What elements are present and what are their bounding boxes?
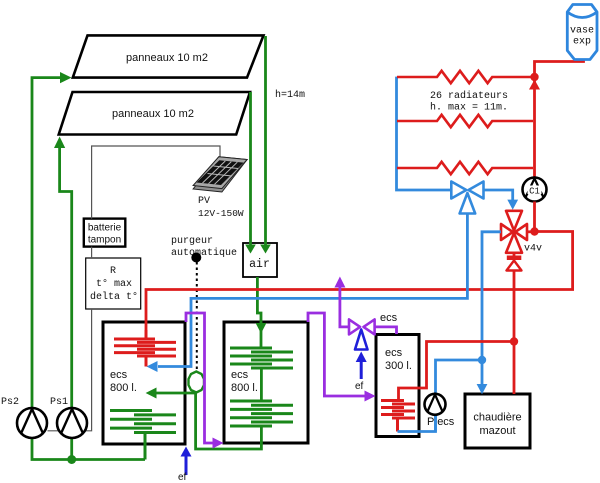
svg-text:h=14m: h=14m [275,89,305,101]
flow arrow up on radiator main [529,80,540,90]
flow meter oval [189,372,205,393]
4-way valve v4v [501,211,527,253]
sensor dotted line [196,262,198,371]
wire battery to controller R [91,247,93,258]
tank 1 green coil [110,411,176,460]
arrow into boiler blue [477,384,488,394]
svg-text:Ps1: Ps1 [50,397,68,408]
svg-text:ecs: ecs [110,369,128,381]
svg-text:ecs: ecs [231,369,249,381]
svg-text:panneaux 10 m2: panneaux 10 m2 [126,52,208,64]
svg-text:ecs: ecs [380,312,398,324]
PV panel icon [193,157,247,192]
svg-text:800 l.: 800 l. [231,382,258,394]
arrow into tank 1 green [146,388,196,399]
tank 1 red coil [114,330,176,367]
svg-text:chaudière: chaudière [473,412,521,424]
pipe v4v right port [527,230,532,233]
svg-text:Ps2: Ps2 [1,397,19,408]
svg-text:ef: ef [178,472,187,483]
tank 3 red coil [381,399,415,432]
svg-text:300 l.: 300 l. [385,360,412,372]
svg-text:12V-150W: 12V-150W [198,208,244,219]
tank 2 inlet from air separator [260,330,263,348]
pipe tank3 coil bottom to P ecs [398,415,436,432]
pipe transfer tank2 top to tank3 purple [308,313,376,402]
wire pump Ps1 riser to panel 2 [54,137,72,411]
pump Ps2 [1,397,47,438]
svg-text:ef: ef [355,381,364,392]
solar panel 1 [73,35,264,77]
node boiler return junction [478,356,486,364]
pipe junction to tank3 coil [399,342,515,401]
svg-text:h. max = 11m.: h. max = 11m. [430,102,508,114]
tank 2 green coil bottom [230,401,293,426]
wire panel 1 outlet down to air separator [264,36,267,246]
check valve under v4v [507,253,522,271]
svg-text:exp: exp [573,37,591,48]
tank 1 ecs 800 l [103,322,185,444]
tank 2 ecs 800 l [224,322,308,443]
node boiler supply junction [510,337,518,345]
svg-text:ecs: ecs [385,347,403,359]
pipe to expansion vessel [535,58,584,77]
radiator row 1 [397,71,531,83]
node v4v junction [530,227,538,235]
mixing valve ecs purple [349,319,375,334]
circulator pump C1 [523,178,547,202]
pipe junction to P ecs pump [436,360,483,394]
svg-text:800 l.: 800 l. [110,382,137,394]
svg-text:tampon: tampon [88,235,121,246]
svg-text:panneaux 10 m2: panneaux 10 m2 [112,108,194,120]
svg-text:26 radiateurs: 26 radiateurs [430,90,508,102]
wire pump Ps2 riser to panel 1 [32,72,72,410]
pipe tank2 coil return riser [196,393,262,450]
svg-text:t° max: t° max [96,278,132,290]
node radiator supply junction [530,73,538,81]
pipe hot supply main red horizontal [146,232,573,331]
cold water ef arrow into tank 1 [178,447,192,483]
battery box batterie tampon [84,219,126,247]
pipe v4v left port blue to boiler [482,232,501,385]
svg-text:R: R [110,266,116,277]
pipe ecs valve to tank3 top [375,327,397,334]
svg-text:PV: PV [198,196,210,207]
radiator row 2 [397,115,533,127]
pipe valve bottom to tanks return [158,214,467,367]
svg-text:mazout: mazout [479,425,515,437]
controller box R [86,258,141,309]
arrows into air separator [245,245,256,254]
svg-text:automatique: automatique [171,247,237,259]
purgeur automatique dot [191,253,201,263]
svg-text:vase: vase [570,26,594,37]
pump Ps1 [50,397,87,438]
svg-text:purgeur: purgeur [171,236,213,247]
radiator row 3 [397,162,533,174]
tank 3 ecs 300 l [376,335,419,437]
pipe check valve down to boiler [513,271,516,395]
pipe boiler return blue vertical radiators [397,78,452,190]
svg-text:P ecs: P ecs [427,416,455,428]
svg-text:v4v: v4v [524,244,542,255]
svg-text:batterie: batterie [88,223,122,234]
solar panel 2 [59,92,250,135]
pipe C1 to v4v junction [533,202,536,232]
svg-text:C1: C1 [529,187,540,197]
node pumps junction [67,455,76,464]
mixing valve 3 voies blue [451,182,483,214]
PV wire from panel to battery [92,146,220,219]
svg-text:delta t°: delta t° [90,291,138,303]
pipe valve right port to v4v top [484,190,519,210]
pipe transfer tank1 top to tank2 bottom purple [186,313,224,449]
tank 2 coil middle link [260,368,263,400]
wire air separator to tank 2 coil [256,277,267,334]
boiler box chaudiere mazout [465,394,530,448]
cold water ef into ecs valve [355,330,368,393]
expansion vessel vase exp [567,5,597,60]
pipe tanks bottom return to pumps [32,436,145,460]
air separator box [243,243,277,277]
hot water out arrow purple [334,277,348,327]
svg-text:air: air [249,258,270,271]
tank 2 green coil top [230,348,293,368]
wire panel 2 outlet down to air separator [249,92,252,246]
pump P ecs [425,394,455,432]
pipe radiator right main vertical [533,77,536,178]
pipe Ps1 bottom [70,436,73,460]
arrow into tank1 coil bottom blue [147,361,158,372]
wire controller R to pumps [48,309,92,431]
